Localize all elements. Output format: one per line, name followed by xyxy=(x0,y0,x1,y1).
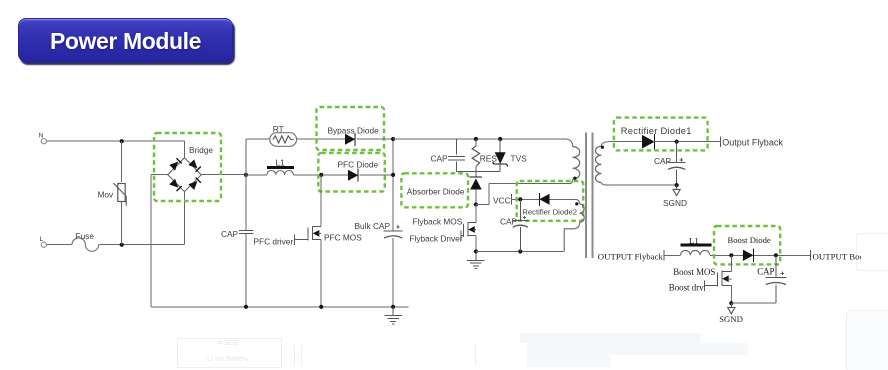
label PFC MOS xyxy=(324,233,362,243)
wire L to bridge bottom xyxy=(183,192,185,245)
label Flyback Driver xyxy=(410,234,463,244)
bridge diode D1 xyxy=(169,158,181,170)
transistor Flyback MOS xyxy=(461,222,476,241)
inductor L1 PFC xyxy=(267,157,294,175)
wire bridge positive output xyxy=(201,174,246,176)
svg-text:PFC MOS: PFC MOS xyxy=(324,233,362,243)
wire diode1 to output xyxy=(653,140,720,144)
wire flyback MOS drain xyxy=(468,205,476,223)
svg-text:RT: RT xyxy=(273,124,284,134)
wire bridge negative to ground bus xyxy=(151,175,168,307)
green highlight box Bridge xyxy=(154,133,221,201)
faint background artifact boxes (decor) xyxy=(177,338,282,368)
wire diode2 to aux winding xyxy=(550,199,580,204)
svg-text:Rectifier Diode2: Rectifier Diode2 xyxy=(522,208,577,217)
capacitor Bulk CAP xyxy=(355,221,403,238)
wire PFC diode to node xyxy=(359,174,393,176)
wire secondary bottom xyxy=(609,183,679,187)
label Rectifier Diode1 xyxy=(621,126,692,136)
label Flyback MOS xyxy=(413,216,463,226)
wire VCC to diode2 xyxy=(512,197,540,201)
svg-text:Fuse: Fuse xyxy=(76,231,95,241)
svg-text:Mov: Mov xyxy=(98,190,115,200)
diode TVS xyxy=(493,139,528,172)
svg-text:L1: L1 xyxy=(689,235,699,245)
svg-text:Bypass Diode: Bypass Diode xyxy=(328,125,380,135)
capacitor CAP input xyxy=(221,229,253,239)
svg-text:SGND: SGND xyxy=(719,314,743,324)
svg-text:Boost Diode: Boost Diode xyxy=(728,235,771,245)
label Boost Diode xyxy=(728,235,771,245)
green highlight box Rectifier Diode1 xyxy=(614,118,708,151)
svg-text:PFC Diode: PFC Diode xyxy=(338,160,379,170)
ground SGND flyback xyxy=(673,185,680,196)
svg-text:L1: L1 xyxy=(276,157,286,167)
label Boost drv xyxy=(669,282,704,292)
label SGND boost xyxy=(719,314,743,324)
wire N line xyxy=(46,139,184,143)
node N input terminal xyxy=(39,133,47,144)
svg-text:CAP: CAP xyxy=(757,266,774,276)
wire secondary top xyxy=(609,141,642,143)
transformer secondary winding xyxy=(595,142,608,185)
label Bridge xyxy=(189,145,213,155)
svg-text:Bulk CAP: Bulk CAP xyxy=(355,221,391,231)
green highlight box Bypass Diode xyxy=(317,107,385,150)
resistor RES snubber xyxy=(472,139,497,172)
wire ground bus xyxy=(151,305,408,309)
label PFC driver xyxy=(254,237,294,247)
node L input terminal xyxy=(40,236,47,247)
transformer core xyxy=(586,133,592,259)
wire top rail to transformer xyxy=(393,137,572,147)
wire bypass to node xyxy=(356,138,393,140)
wire snubber bottom join xyxy=(457,172,501,177)
svg-text:Absorber Diode: Absorber Diode xyxy=(407,186,465,196)
bridge diode D3 xyxy=(169,179,181,191)
thermistor RT xyxy=(270,124,297,146)
label Boost MOS xyxy=(673,267,715,277)
capacitor CAP flyback out xyxy=(654,142,686,185)
ground SGND boost xyxy=(728,303,735,314)
svg-text:CAP: CAP xyxy=(431,154,449,164)
svg-text:RES: RES xyxy=(480,154,498,164)
ground earth main xyxy=(384,307,402,324)
bridge diode D4 xyxy=(188,178,200,190)
wire L line xyxy=(99,243,185,247)
fuse F1 xyxy=(46,231,98,251)
svg-text:CAP: CAP xyxy=(654,156,672,166)
svg-text:OUTPUT Boost: OUTPUT Boost xyxy=(813,251,871,261)
transformer primary winding xyxy=(573,147,580,180)
inductor L1 boost xyxy=(680,235,711,255)
svg-text:PFC driver: PFC driver xyxy=(254,237,294,247)
wire L1 to PFC diode xyxy=(293,173,348,177)
wire boost MOS source xyxy=(729,286,733,306)
wire N to bridge top xyxy=(183,141,185,158)
green highlight box Boost Diode xyxy=(714,226,780,264)
node junction x246 xyxy=(244,173,248,177)
svg-text:SGND: SGND xyxy=(663,198,687,208)
diode Rectifier Diode1 xyxy=(642,134,655,150)
green highlight box Rectifier Diode2 xyxy=(517,181,584,221)
bridge diode D2 xyxy=(188,159,200,171)
transistor PFC MOS xyxy=(294,226,321,245)
diode PFC xyxy=(348,169,358,182)
svg-text:Output Flyback: Output Flyback xyxy=(722,137,783,147)
svg-text:TVS: TVS xyxy=(511,154,528,164)
wire drain node to primary xyxy=(476,180,573,205)
transformer aux winding xyxy=(564,202,584,251)
label PFC Diode xyxy=(338,160,379,170)
svg-text:Flyback MOS: Flyback MOS xyxy=(413,216,463,226)
wire vertical x393 xyxy=(391,137,395,307)
label Rectifier Diode2 xyxy=(522,208,577,217)
svg-text:Rectifier Diode1: Rectifier Diode1 xyxy=(621,126,692,136)
label Absorber Diode xyxy=(407,186,465,196)
bridge rectifier BR1 diamond xyxy=(168,158,201,192)
wire PFC MOS source xyxy=(320,240,322,307)
wire absorber to drain node xyxy=(474,190,478,207)
wire input to L1 boost xyxy=(664,254,681,256)
varistor MOV xyxy=(98,141,127,245)
wire PFC MOS drain xyxy=(313,175,322,227)
svg-text:Boost drv: Boost drv xyxy=(669,282,704,292)
wire L1 to boost diode xyxy=(710,253,743,257)
wire to RT xyxy=(246,138,270,140)
capacitor CAP snubber xyxy=(431,139,466,172)
svg-text:Flyback Driver: Flyback Driver xyxy=(410,234,463,244)
green highlight box PFC Diode xyxy=(318,153,385,192)
svg-text:CAP: CAP xyxy=(221,229,239,239)
label OUTPUT Boost xyxy=(810,250,870,261)
svg-text:OUTPUT Flyback: OUTPUT Flyback xyxy=(598,252,664,262)
wire boost diode to output xyxy=(754,253,811,257)
title button Power Module xyxy=(18,18,233,62)
svg-text:N: N xyxy=(39,133,44,140)
ground earth flyback xyxy=(467,252,485,269)
wire boost cap to source xyxy=(731,302,776,304)
wire RT to bypass diode xyxy=(297,138,345,140)
svg-text:L: L xyxy=(40,236,44,243)
capacitor CAP vcc xyxy=(500,199,528,251)
diode Bypass xyxy=(345,133,355,146)
capacitor CAP boost xyxy=(757,255,786,303)
transistor Boost MOS xyxy=(704,271,731,291)
green highlight box Absorber Diode xyxy=(401,173,468,207)
wire boost MOS drain xyxy=(722,255,731,271)
label Output Flyback xyxy=(720,137,783,148)
label Bypass Diode xyxy=(328,125,380,135)
wire flyback MOS source xyxy=(474,236,478,254)
label SGND flyback xyxy=(663,198,687,208)
label OUTPUT Flyback input xyxy=(598,250,664,262)
wire vertical x246 xyxy=(245,139,247,307)
label VCC xyxy=(493,194,512,206)
wire node to L1 xyxy=(246,174,267,176)
wire flyback source bus xyxy=(476,249,564,253)
diode Absorber xyxy=(470,177,483,190)
diode Rectifier Diode2 xyxy=(539,193,549,206)
diode Boost xyxy=(743,249,754,262)
svg-text:Boost MOS: Boost MOS xyxy=(673,267,715,277)
svg-text:VCC: VCC xyxy=(493,196,511,206)
svg-text:CAP: CAP xyxy=(500,217,518,227)
svg-text:Bridge: Bridge xyxy=(189,145,213,155)
